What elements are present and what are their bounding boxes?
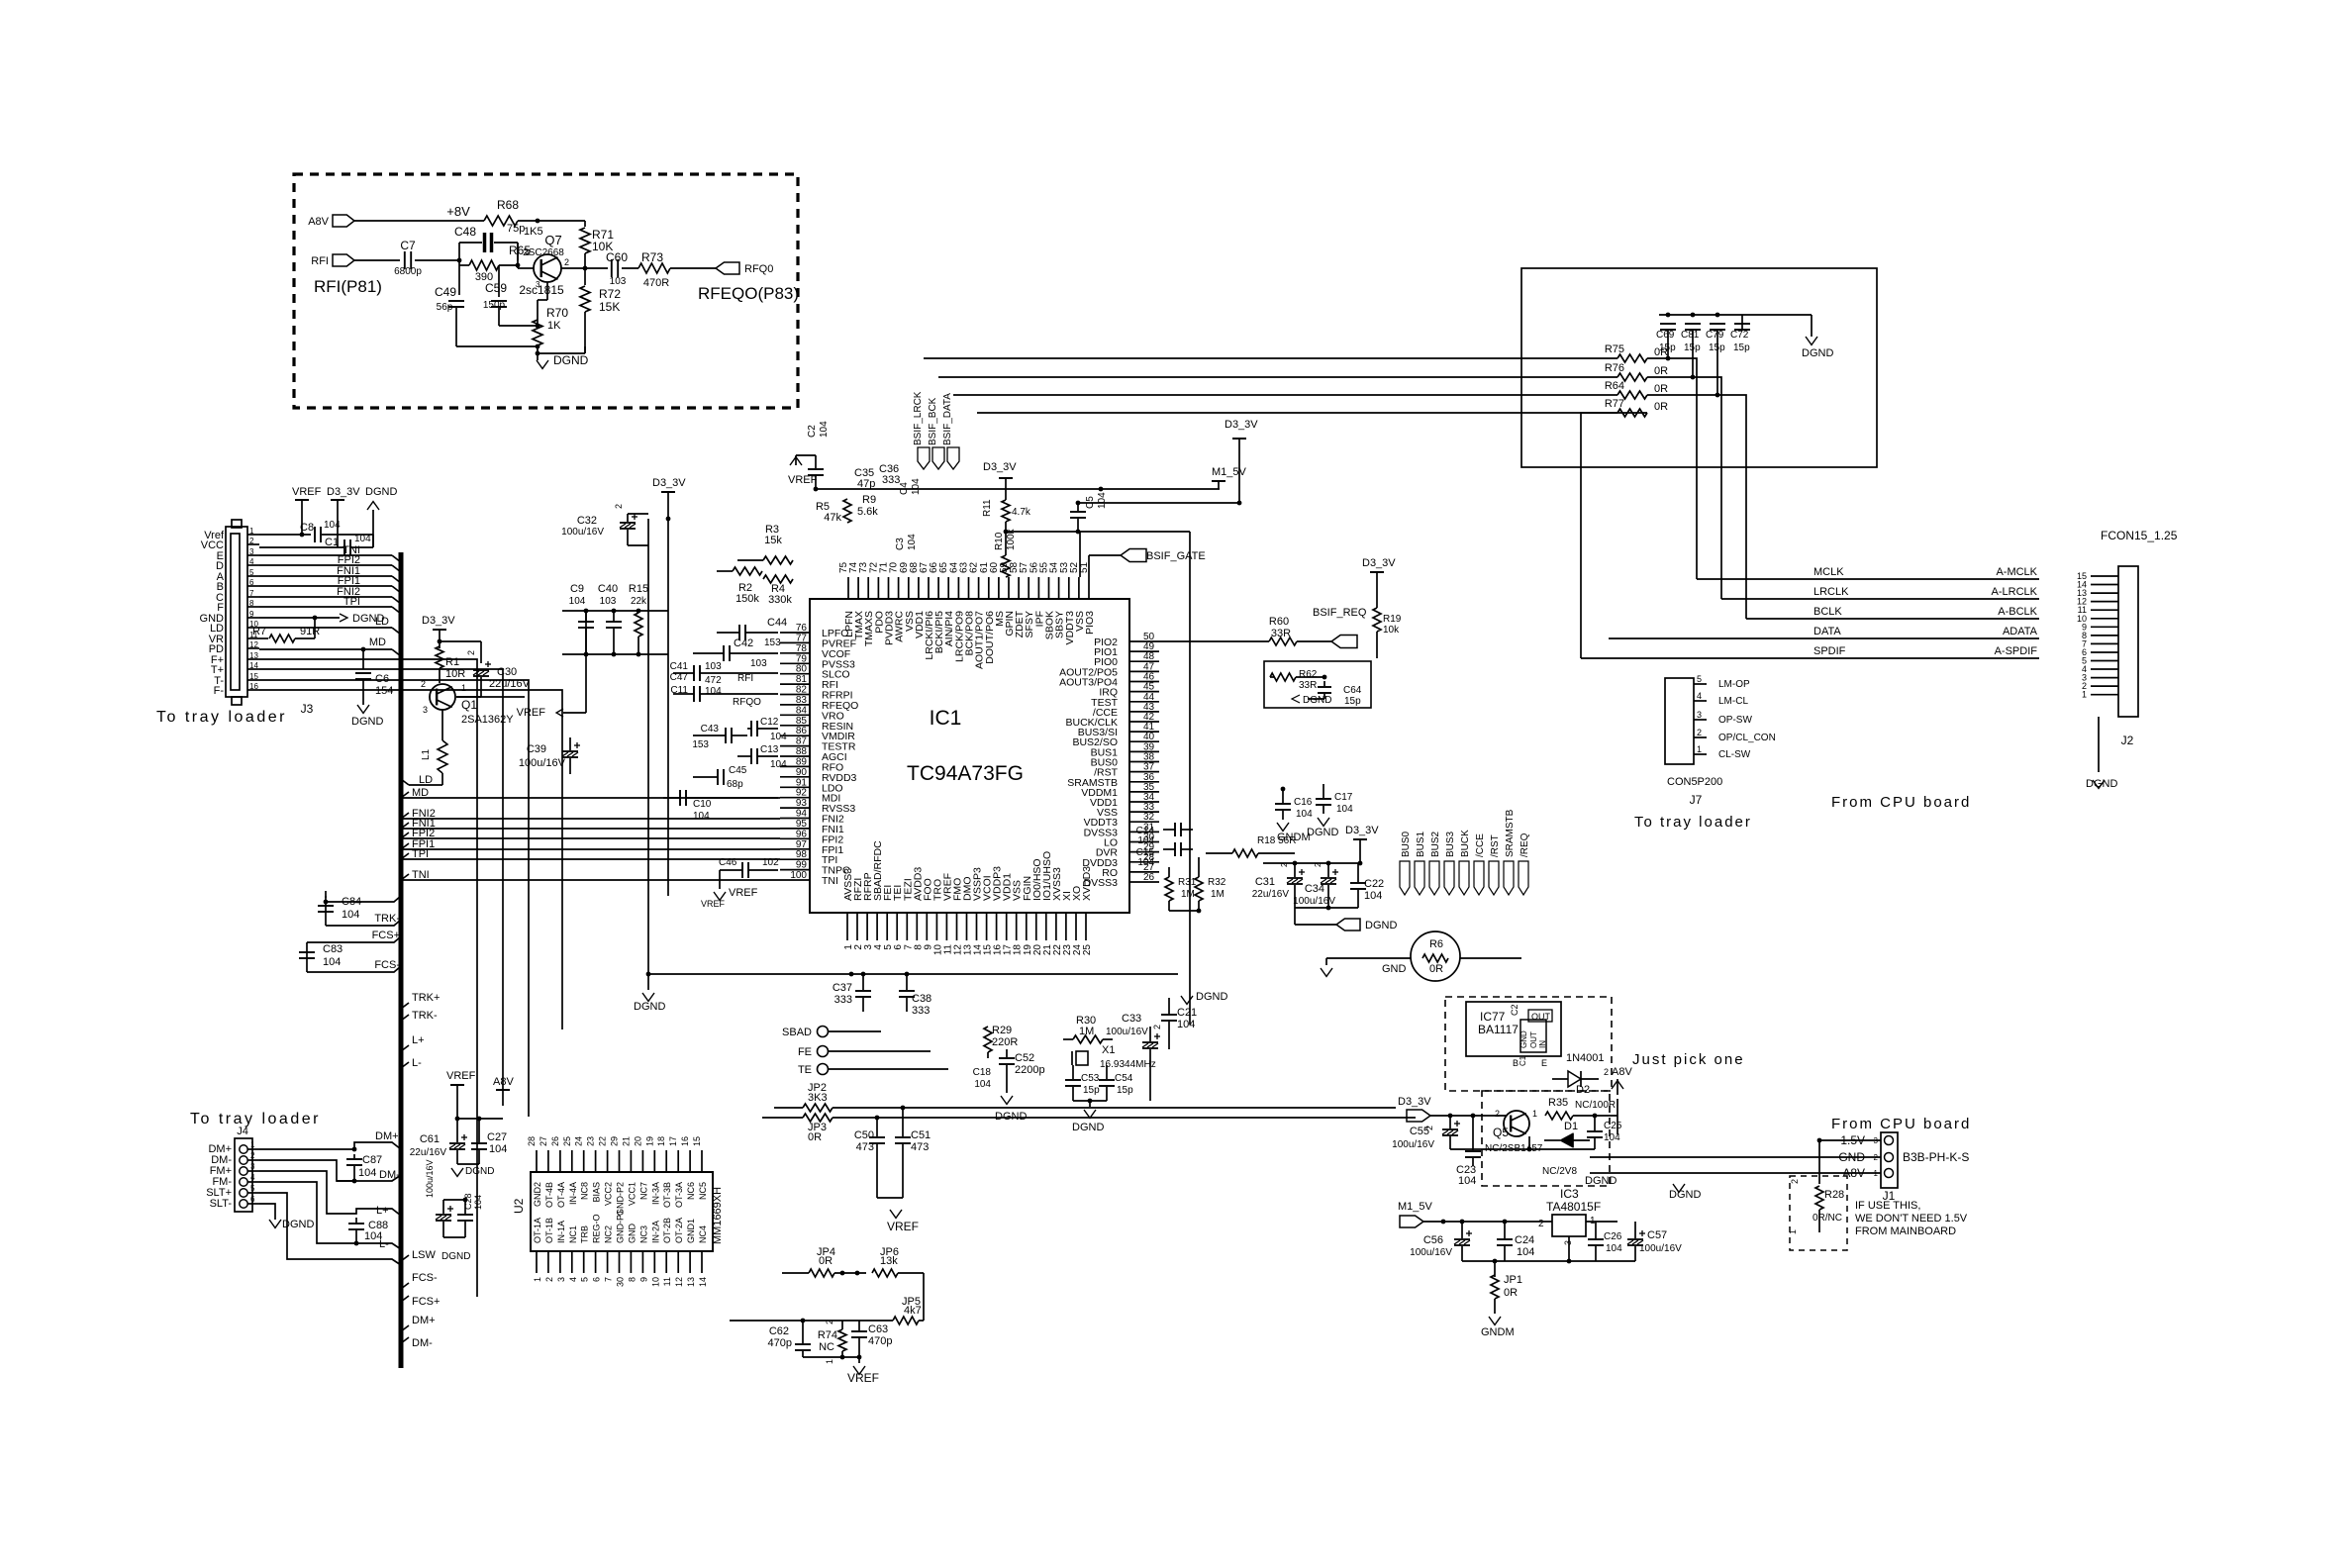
svg-text:RFQ0: RFQ0 (744, 263, 773, 275)
svg-text:OT-1A: OT-1A (533, 1218, 542, 1243)
svg-text:R75: R75 (1605, 343, 1624, 355)
svg-text:L-: L- (379, 1238, 389, 1250)
ground DGND under C52 (995, 1079, 1027, 1123)
svg-text:8: 8 (249, 599, 254, 608)
svg-text:DGND: DGND (1072, 1122, 1104, 1133)
transistor Q1 (421, 679, 514, 726)
resistor R1 (436, 646, 465, 683)
wire A8V to J1 bottom rail (0, 0, 1, 1)
svg-text:103: 103 (600, 596, 617, 607)
svg-text:2: 2 (1152, 1025, 1162, 1029)
svg-text:95: 95 (796, 819, 808, 830)
svg-text:TRK+: TRK+ (412, 992, 440, 1004)
svg-text:92: 92 (796, 788, 808, 799)
svg-text:NC/100R: NC/100R (1575, 1100, 1616, 1111)
port RFI flag (311, 254, 354, 267)
svg-text:M1_5V: M1_5V (1212, 466, 1247, 478)
svg-text:10: 10 (650, 1277, 660, 1287)
svg-text:GND: GND (1519, 1030, 1528, 1048)
svg-text:104: 104 (489, 1143, 507, 1155)
svg-text:GND-P1: GND-P1 (616, 1210, 626, 1243)
label To tray loader (upper) (156, 709, 287, 726)
svg-text:NC1: NC1 (568, 1225, 578, 1243)
label From CPU board (J1) (1831, 1116, 1971, 1132)
svg-text:IN: IN (1538, 1040, 1547, 1048)
capacitor C29 (0, 0, 1, 1)
svg-text:DGND: DGND (1585, 1175, 1617, 1187)
svg-text:BSIF_BCK: BSIF_BCK (928, 397, 938, 445)
svg-text:BSIF_DATA: BSIF_DATA (942, 393, 953, 445)
svg-text:104: 104 (705, 686, 722, 697)
svg-text:D3_3V: D3_3V (652, 477, 686, 489)
svg-text:OT-2A: OT-2A (674, 1218, 684, 1243)
svg-text:154: 154 (375, 685, 393, 697)
capacitor C1 (325, 534, 371, 555)
svg-text:C48: C48 (454, 225, 476, 239)
ground DGND arrow (537, 353, 589, 368)
capacitor C12 (0, 0, 1, 1)
svg-text:2: 2 (614, 504, 624, 509)
svg-text:1: 1 (461, 683, 466, 693)
svg-text:C47: C47 (670, 672, 689, 683)
svg-text:4: 4 (568, 1277, 578, 1282)
svg-text:REG-O: REG-O (592, 1214, 602, 1243)
svg-text:To tray loader: To tray loader (1634, 814, 1752, 831)
svg-text:C63: C63 (868, 1323, 888, 1335)
svg-text:DM+: DM+ (412, 1315, 436, 1326)
svg-text:L1: L1 (421, 748, 432, 760)
svg-text:2200p: 2200p (1015, 1064, 1045, 1076)
svg-text:30: 30 (616, 1277, 626, 1287)
svg-text:BUS3: BUS3 (1445, 831, 1456, 857)
svg-text:4: 4 (250, 1173, 255, 1182)
svg-text:103: 103 (705, 661, 722, 672)
svg-text:5.6k: 5.6k (857, 506, 878, 518)
svg-text:C43: C43 (701, 724, 720, 735)
svg-text:6800p: 6800p (394, 266, 422, 277)
capacitor C53 (1065, 1065, 1100, 1101)
wire R68 to node (518, 219, 585, 224)
resistor R32 (1169, 857, 1226, 913)
svg-text:C21: C21 (1177, 1007, 1197, 1019)
svg-text:100: 100 (790, 870, 807, 881)
test point FE (798, 1046, 829, 1059)
transistor Q7 (519, 233, 569, 297)
svg-text:C45: C45 (729, 765, 747, 776)
svg-text:2: 2 (564, 257, 569, 267)
capacitor C24 (1497, 1220, 1534, 1261)
labels J1 nets (1838, 1133, 1969, 1180)
svg-text:472: 472 (705, 675, 722, 686)
bus entry MD (401, 787, 429, 799)
capacitor C59 (483, 265, 540, 328)
capacitor C4 (899, 478, 922, 495)
svg-text:80: 80 (796, 664, 808, 675)
svg-text:7: 7 (249, 589, 254, 598)
power D3_3V R19 (1362, 557, 1396, 608)
svg-text:J2: J2 (2121, 734, 2134, 747)
svg-text:24: 24 (574, 1136, 584, 1146)
svg-text:47k: 47k (824, 512, 841, 524)
labels NC alt (1485, 1143, 1577, 1177)
wires R74 C63 bottom (803, 1355, 861, 1363)
svg-text:L+: L+ (376, 1205, 389, 1217)
svg-text:19: 19 (644, 1136, 654, 1146)
port VREF arrow mid (887, 1210, 919, 1233)
svg-text:C3: C3 (895, 538, 906, 550)
capacitor C35 sym (0, 0, 1, 1)
capacitor C32 (561, 504, 637, 545)
svg-text:C79: C79 (1706, 330, 1724, 341)
capacitor C5 (1070, 492, 1239, 535)
ground DGND in R62 box (1292, 695, 1331, 706)
label TC94A73FG (907, 762, 1024, 785)
transistor Q5 (1493, 1109, 1537, 1139)
caps C50 C51 symbols (869, 1106, 911, 1198)
svg-text:83: 83 (796, 695, 808, 706)
wire pin52 col (1079, 532, 1081, 577)
svg-text:17: 17 (668, 1136, 678, 1146)
svg-text:C7: C7 (400, 239, 416, 252)
regulator IC77 inner (1510, 1004, 1552, 1052)
svg-text:333: 333 (882, 474, 900, 486)
svg-text:15: 15 (692, 1136, 702, 1146)
svg-text:GND1: GND1 (686, 1219, 696, 1243)
svg-text:IN-1A: IN-1A (556, 1221, 566, 1243)
diode D2 (1552, 1052, 1609, 1096)
power A8V above U2 (493, 1076, 514, 1090)
svg-text:9: 9 (638, 1277, 648, 1282)
wire C8 to DGND (322, 534, 373, 536)
label RFI(P81) (314, 277, 382, 296)
svg-text:VREF: VREF (701, 899, 726, 909)
connector J1 pins (1874, 1136, 1894, 1179)
svg-text:104: 104 (324, 520, 341, 531)
connector J3 pins (200, 527, 259, 697)
svg-text:VREF: VREF (788, 474, 818, 486)
svg-text:VCC1: VCC1 (627, 1182, 637, 1206)
svg-text:NC/2V8: NC/2V8 (1542, 1166, 1577, 1177)
capacitor C14 (1136, 823, 1193, 846)
svg-text:A-MCLK: A-MCLK (1996, 566, 2037, 578)
svg-text:11: 11 (662, 1277, 672, 1286)
resistor R70 (533, 306, 568, 355)
svg-text:104: 104 (1296, 809, 1313, 820)
resistor JP3 (762, 1114, 1416, 1143)
svg-text:C61: C61 (420, 1133, 440, 1145)
svg-text:28: 28 (527, 1136, 537, 1146)
svg-text:/REQ: /REQ (1519, 833, 1530, 857)
flags BUS group (1400, 809, 1530, 895)
wire TE (829, 1068, 948, 1070)
dashed box R28 (1790, 1176, 1847, 1250)
svg-text:2sc1815: 2sc1815 (519, 283, 564, 297)
svg-text:BSIF_REQ: BSIF_REQ (1313, 607, 1367, 619)
svg-text:NC2: NC2 (604, 1225, 614, 1243)
svg-text:2: 2 (1697, 728, 1702, 737)
svg-text:220R: 220R (992, 1036, 1018, 1048)
capacitor C84 (318, 896, 361, 921)
svg-text:1: 1 (1532, 1109, 1537, 1119)
svg-text:104: 104 (770, 759, 787, 770)
svg-text:91R: 91R (300, 626, 320, 637)
svg-text:BUS0: BUS0 (1401, 831, 1412, 857)
svg-text:RFQO: RFQO (733, 697, 761, 708)
svg-text:C16: C16 (1294, 797, 1313, 808)
svg-text:89: 89 (796, 756, 808, 767)
svg-text:100u/16V: 100u/16V (1639, 1243, 1682, 1254)
svg-text:A8V: A8V (493, 1076, 514, 1088)
capacitor C49 (435, 265, 464, 346)
svg-text:C59: C59 (485, 281, 507, 295)
capacitor C26 (1586, 1222, 1622, 1261)
svg-text:13: 13 (686, 1277, 696, 1287)
ground DGND under IC (634, 974, 665, 1013)
resistor R3 (737, 524, 793, 564)
svg-text:DGND: DGND (1196, 991, 1227, 1003)
svg-text:R76: R76 (1605, 362, 1624, 374)
svg-text:47p: 47p (857, 478, 875, 490)
capacitor C60 (606, 250, 628, 287)
svg-text:0R: 0R (1429, 963, 1443, 975)
svg-text:C81: C81 (1681, 330, 1700, 341)
svg-text:DGND: DGND (1365, 920, 1397, 931)
wires J1 (1590, 1138, 1881, 1173)
bus entry L- right (401, 1057, 422, 1069)
wire L1 to LD (401, 773, 442, 785)
wire pin51 col (0, 0, 1, 1)
svg-text:C9: C9 (570, 583, 584, 595)
svg-text:IN-4A: IN-4A (568, 1182, 578, 1205)
svg-text:D3_3V: D3_3V (1362, 557, 1396, 569)
IC1 right pins (1059, 632, 1159, 889)
svg-text:Q1: Q1 (461, 698, 477, 712)
svg-text:0R: 0R (1654, 383, 1668, 395)
svg-text:From CPU board: From CPU board (1831, 1116, 1971, 1132)
svg-text:104: 104 (569, 596, 586, 607)
svg-text:C52: C52 (1015, 1052, 1034, 1064)
svg-text:15p: 15p (1344, 696, 1361, 707)
svg-text:OP/CL_CON: OP/CL_CON (1718, 733, 1776, 743)
label CON5P200 (1667, 776, 1722, 788)
svg-text:R11: R11 (982, 499, 993, 517)
svg-text:OT-2B: OT-2B (662, 1218, 672, 1243)
wire R6 left (1321, 958, 1411, 976)
svg-text:MM1669XH: MM1669XH (712, 1187, 724, 1244)
capacitor C16 (1275, 787, 1313, 843)
svg-text:DATA: DATA (1813, 626, 1841, 637)
capacitor C42 (693, 637, 778, 669)
svg-text:C2: C2 (1510, 1004, 1519, 1016)
svg-text:2SA1362Y: 2SA1362Y (461, 714, 514, 726)
svg-text:C51: C51 (911, 1129, 931, 1141)
resistor JP1 (1481, 1274, 1522, 1338)
svg-text:100u/16V: 100u/16V (425, 1159, 435, 1198)
svg-text:85: 85 (796, 716, 808, 727)
svg-text:C10: C10 (693, 799, 712, 810)
svg-text:WE DON'T NEED 1.5V: WE DON'T NEED 1.5V (1855, 1213, 1968, 1225)
svg-text:104: 104 (342, 909, 359, 921)
svg-text:C53: C53 (1081, 1073, 1100, 1084)
svg-text:C17: C17 (1334, 792, 1353, 803)
svg-text:DGND: DGND (1802, 347, 1833, 359)
svg-text:/CCE: /CCE (1475, 833, 1486, 857)
svg-text:L+: L+ (412, 1034, 425, 1046)
label IC1 (930, 707, 962, 730)
svg-text:C33: C33 (1122, 1013, 1141, 1025)
port M1_5V flag (1398, 1201, 1552, 1227)
wire bus to IC1 left (401, 818, 780, 820)
resistor R35 (1545, 1097, 1616, 1120)
svg-text:R73: R73 (641, 250, 663, 264)
port M1_5V top (1212, 466, 1247, 489)
wire bus to IC1 left (401, 828, 780, 830)
bus main vertical (399, 552, 404, 1368)
wire DGNDrail down (647, 519, 649, 974)
svg-text:21: 21 (621, 1136, 631, 1146)
resistor JP4 (782, 1246, 866, 1277)
svg-text:D3_3V: D3_3V (983, 461, 1017, 473)
dashed box IC77 (1445, 997, 1612, 1091)
svg-text:VREF: VREF (292, 486, 322, 498)
svg-text:15p: 15p (1083, 1085, 1100, 1096)
svg-text:OT-1B: OT-1B (544, 1218, 554, 1243)
svg-text:2: 2 (1538, 1219, 1544, 1229)
svg-text:LM-CL: LM-CL (1718, 696, 1748, 707)
bus entry L+ right (401, 1034, 425, 1051)
resistor JP6 (872, 1246, 924, 1277)
svg-text:DM-: DM- (412, 1337, 433, 1349)
wires C50 C51 join (0, 0, 1, 1)
diode D1 (1544, 1121, 1590, 1147)
capacitor C27 (457, 1117, 507, 1164)
capacitor C61 (410, 1119, 495, 1177)
svg-text:LSW: LSW (412, 1249, 436, 1261)
svg-text:OT-4A: OT-4A (556, 1182, 566, 1208)
wire J3 pin2 (259, 546, 343, 548)
bus entry TRK- right (401, 1010, 438, 1022)
resistor R64 (1605, 380, 1668, 399)
svg-text:26: 26 (1143, 872, 1155, 883)
bus entry FNI2 (401, 808, 436, 820)
svg-text:91: 91 (796, 777, 808, 788)
capacitor C51 (911, 1129, 931, 1153)
capacitor C55 (1392, 1114, 1460, 1150)
svg-text:13: 13 (249, 651, 258, 660)
caps C69 C81 C79 C72 (1656, 313, 1779, 398)
svg-text:DGND: DGND (995, 1111, 1027, 1123)
svg-text:TPI: TPI (343, 596, 360, 608)
svg-text:1: 1 (2082, 690, 2087, 700)
svg-text:0R: 0R (819, 1255, 833, 1267)
capacitor C22 (1350, 863, 1384, 908)
IC1 left pins (780, 623, 858, 887)
svg-text:C60: C60 (606, 250, 628, 264)
bus entry TNI (401, 869, 430, 881)
capacitor C28grp (425, 1159, 453, 1237)
svg-text:C57: C57 (1647, 1229, 1667, 1241)
svg-text:153: 153 (692, 739, 709, 750)
bus entry TPI (401, 848, 429, 860)
resistor JP2 (774, 1082, 1396, 1112)
wire bus to IC1 left (401, 837, 780, 839)
svg-text:104: 104 (1097, 492, 1108, 509)
svg-text:BUS1: BUS1 (1416, 831, 1426, 857)
svg-text:3: 3 (250, 1162, 255, 1171)
wire collector to node (561, 267, 585, 269)
svg-text:1: 1 (1788, 1229, 1798, 1234)
wire J4 pin6 SLT- (259, 1204, 275, 1220)
svg-text:DGND: DGND (1307, 827, 1338, 838)
svg-text:76: 76 (796, 623, 808, 634)
resistor R4 (763, 575, 793, 606)
ground rail under IC (646, 972, 1178, 977)
label To tray loader (J7) (1634, 814, 1752, 831)
svg-text:33R: 33R (1299, 680, 1317, 691)
svg-text:15k: 15k (764, 535, 782, 546)
svg-text:DGND: DGND (465, 1166, 494, 1177)
svg-text:81: 81 (796, 674, 808, 685)
resistor R5 (816, 499, 851, 524)
svg-text:18: 18 (656, 1136, 666, 1146)
svg-text:22u/16V: 22u/16V (1252, 889, 1290, 900)
svg-text:16: 16 (680, 1136, 690, 1146)
svg-text:330k: 330k (768, 594, 792, 606)
svg-text:A-SPDIF: A-SPDIF (1995, 645, 2038, 657)
capacitor C8 (300, 520, 341, 542)
svg-text:100u/16V: 100u/16V (561, 527, 604, 538)
svg-text:C84: C84 (342, 896, 361, 908)
connector J2 pins (2077, 571, 2118, 700)
svg-text:FCS-: FCS- (412, 1272, 438, 1284)
svg-text:R77: R77 (1605, 398, 1624, 410)
svg-text:R9: R9 (862, 494, 876, 506)
wire bus to IC1 left (401, 858, 780, 860)
wire C32 bot (628, 544, 648, 546)
svg-text:C83: C83 (323, 943, 343, 955)
capacitor C12b (747, 717, 787, 742)
svg-text:Q7: Q7 (544, 233, 561, 247)
svg-text:D3_3V: D3_3V (1225, 419, 1258, 431)
svg-text:DGND: DGND (365, 486, 397, 498)
capacitor C10 sym (663, 790, 778, 806)
svg-text:To tray loader: To tray loader (156, 709, 287, 726)
svg-text:D3_3V: D3_3V (1345, 825, 1379, 836)
svg-text:M1_5V: M1_5V (1398, 1201, 1433, 1213)
box R62 (1264, 661, 1371, 708)
capacitor C62 (768, 1319, 811, 1357)
svg-text:150p: 150p (483, 300, 506, 311)
label FCS- left (374, 959, 400, 971)
svg-text:LRCLK: LRCLK (1813, 586, 1849, 598)
svg-text:C44: C44 (767, 617, 787, 629)
svg-text:E: E (1541, 1058, 1547, 1068)
wires left pins misc (0, 0, 1, 1)
wires C9 rail (562, 609, 668, 614)
svg-text:C1: C1 (1519, 1055, 1527, 1066)
port VREF flag mid (517, 611, 586, 719)
wires Q5 bottom rail (1450, 1136, 1595, 1151)
svg-text:A-BCLK: A-BCLK (1998, 606, 2037, 618)
svg-text:5: 5 (1697, 674, 1702, 684)
svg-text:97: 97 (796, 839, 808, 850)
capacitor C21 (1161, 998, 1197, 1049)
resistor R6 jumper circle (1411, 931, 1460, 981)
connector J4 body (235, 1126, 252, 1212)
svg-text:X1: X1 (1102, 1044, 1115, 1056)
svg-text:103: 103 (750, 658, 767, 669)
flag symbols BSIF (918, 447, 959, 469)
